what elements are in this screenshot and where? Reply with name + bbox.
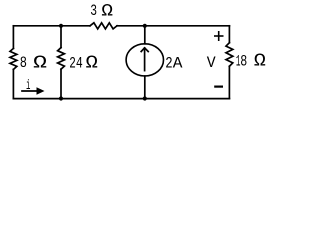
resistor 3ohm zigzag [90,23,117,29]
current source arrow [144,48,146,71]
svg-text:2: 2 [165,54,172,72]
wire current source bottom stub [144,76,146,99]
svg-text:8: 8 [240,53,247,71]
wire right branch top [228,26,230,43]
current source circle [126,44,163,76]
wire current source top stub [144,26,146,44]
wire right branch bottom [228,66,230,98]
svg-text:i: i [26,79,30,94]
label 8 ohm [20,52,47,73]
svg-text:8: 8 [20,54,27,72]
label 18 ohm [236,51,266,72]
resistor 18ohm zigzag [226,43,233,67]
svg-text:V: V [207,54,216,72]
svg-text:4: 4 [76,54,83,72]
wire bottom rail [13,98,229,100]
label 3 ohm [90,2,113,22]
resistor 8ohm zigzag [10,48,17,69]
wire 24ohm branch bottom [60,69,62,98]
svg-text:Ω: Ω [86,53,98,73]
svg-text:Ω: Ω [33,52,47,73]
wire 24ohm branch top [60,26,62,48]
minus sign [214,86,223,88]
svg-text:A: A [173,54,183,72]
wire left branch top [12,26,14,49]
label 2A [165,54,183,72]
resistor 24ohm zigzag [58,48,65,70]
svg-text:3: 3 [90,2,97,20]
svg-text:Ω: Ω [101,2,113,22]
plus sign [214,31,224,41]
node D junction dot bottom right [143,96,147,100]
wire top rail right segment [117,25,229,27]
current arrow i [22,90,37,92]
node C junction dot bottom left [59,96,63,100]
wire top rail left segment [13,25,90,27]
wire left branch bottom [12,69,14,98]
node A junction dot top left [59,24,63,28]
node B junction dot top right [143,24,147,28]
current arrow i head [37,87,45,94]
label 24 ohm [69,53,98,73]
svg-text:Ω: Ω [254,51,266,72]
